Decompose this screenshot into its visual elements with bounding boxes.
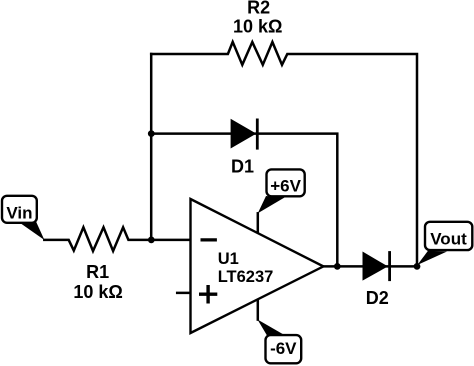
svg-text:10 kΩ: 10 kΩ — [73, 282, 122, 302]
svg-text:D1: D1 — [231, 157, 254, 177]
svg-text:LT6237: LT6237 — [218, 268, 274, 286]
svg-text:R1: R1 — [86, 262, 109, 282]
svg-text:R2: R2 — [247, 0, 270, 17]
svg-text:Vin: Vin — [6, 204, 32, 223]
svg-text:Vout: Vout — [430, 230, 467, 249]
svg-text:U1: U1 — [218, 250, 239, 268]
svg-text:D2: D2 — [366, 288, 389, 308]
svg-text:10 kΩ: 10 kΩ — [233, 16, 282, 36]
svg-text:-6V: -6V — [270, 339, 297, 358]
svg-text:+6V: +6V — [270, 176, 301, 195]
